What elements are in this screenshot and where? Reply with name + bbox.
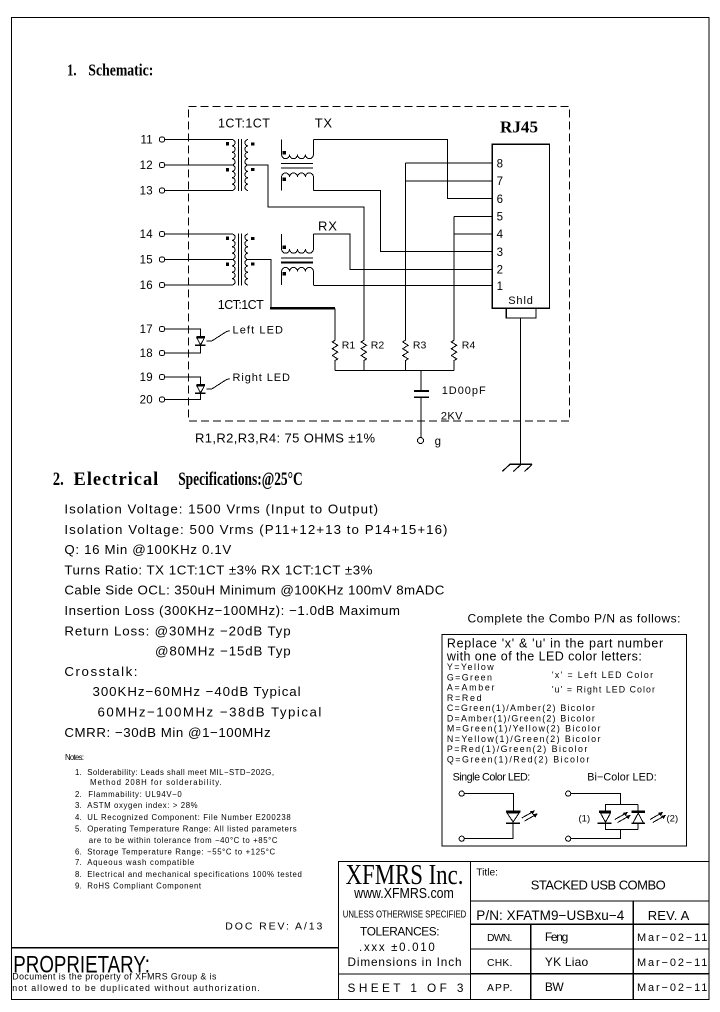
svg-text:R=Red: R=Red <box>447 693 482 703</box>
svg-text:2KV: 2KV <box>441 411 463 423</box>
svg-text:5: 5 <box>497 212 503 224</box>
svg-text:TOLERANCES:: TOLERANCES: <box>360 925 440 939</box>
svg-text:Q: 16 Min @100KHz 0.1V: Q: 16 Min @100KHz 0.1V <box>64 542 231 557</box>
svg-text:ASTM oxygen index: > 28%: ASTM oxygen index: > 28% <box>87 801 197 810</box>
svg-text:Mar−02−11: Mar−02−11 <box>637 982 707 994</box>
svg-text:1.: 1. <box>75 768 82 777</box>
svg-text:.xxx ±0.010: .xxx ±0.010 <box>359 942 435 954</box>
svg-text:2.: 2. <box>53 470 64 490</box>
svg-text:TX: TX <box>315 115 333 130</box>
svg-text:N=Yellow(1)/Green(2) Bicolor: N=Yellow(1)/Green(2) Bicolor <box>447 734 601 744</box>
svg-text:Return Loss: @30MHz −20dB: Return Loss: @30MHz −20dB Typ <box>64 623 290 638</box>
svg-text:Electrical: Electrical <box>74 470 159 490</box>
svg-text:are to be within tolerance: are to be within tolerance from −40°C to… <box>89 836 278 845</box>
svg-text:3.: 3. <box>75 801 82 810</box>
svg-text:Electrical and mechanical s: Electrical and mechanical specifications… <box>87 870 302 879</box>
svg-text:1: 1 <box>497 281 503 293</box>
svg-text:Bi−Color LED:: Bi−Color LED: <box>587 772 656 784</box>
svg-text:8.: 8. <box>75 870 82 879</box>
svg-text:Single Color LED:: Single Color LED: <box>453 772 531 784</box>
svg-text:Insertion Loss (300KHz−100MH: Insertion Loss (300KHz−100MHz): −1.0dB M… <box>64 603 400 618</box>
svg-text:A=Amber: A=Amber <box>447 683 495 693</box>
svg-text:R2: R2 <box>371 340 385 352</box>
svg-text:not allowed to be duplicat: not allowed to be duplicated without aut… <box>12 983 259 993</box>
svg-text:Crosstalk:: Crosstalk: <box>64 664 137 679</box>
svg-text:Operating Temperature Range:: Operating Temperature Range: All listed … <box>87 825 296 834</box>
svg-text:9.: 9. <box>75 882 82 891</box>
svg-text:APP.: APP. <box>487 983 512 994</box>
svg-text:R1: R1 <box>342 340 356 352</box>
svg-text:Solderability: Leads shall: Solderability: Leads shall meet MIL−STD−… <box>87 768 274 777</box>
svg-text:7.: 7. <box>75 858 82 867</box>
svg-text:20: 20 <box>140 395 153 407</box>
svg-text:6: 6 <box>497 194 503 206</box>
svg-text:@80MHz −15dB Typ: @80MHz −15dB Typ <box>155 644 291 659</box>
svg-text:Cable Side OCL: 350uH Mini: Cable Side OCL: 350uH Minimum @100KHz 10… <box>64 583 444 598</box>
svg-text:g: g <box>435 436 441 448</box>
svg-text:'x' = Left LED Color: 'x' = Left LED Color <box>552 670 653 680</box>
svg-text:Mar−02−11: Mar−02−11 <box>637 957 707 969</box>
svg-text:Shld: Shld <box>508 295 533 307</box>
svg-text:Aqueous wash compatible: Aqueous wash compatible <box>87 858 194 867</box>
svg-text:14: 14 <box>140 229 154 241</box>
svg-text:YK Liao: YK Liao <box>545 955 589 969</box>
svg-text:(1): (1) <box>579 814 591 825</box>
svg-text:6.: 6. <box>75 847 82 856</box>
svg-text:12: 12 <box>140 160 153 172</box>
svg-text:1CT:1CT: 1CT:1CT <box>218 298 264 312</box>
svg-text:1D00pF: 1D00pF <box>442 385 486 397</box>
svg-text:STACKED USB COMBO: STACKED USB COMBO <box>531 877 666 892</box>
svg-text:R1,R2,R3,R4: 75 OHMS ±1%: R1,R2,R3,R4: 75 OHMS ±1% <box>195 430 375 445</box>
svg-text:P/N: XFATM9−USBxu−4: P/N: XFATM9−USBxu−4 <box>476 908 624 923</box>
svg-text:'u' = Right LED Color: 'u' = Right LED Color <box>552 685 655 695</box>
svg-text:Complete the Combo P/N as: Complete the Combo P/N as follows: <box>468 611 681 625</box>
svg-text:R3: R3 <box>413 340 427 352</box>
svg-text:Feng: Feng <box>545 930 568 944</box>
svg-text:DWN.: DWN. <box>487 933 512 944</box>
svg-text:3: 3 <box>497 247 503 259</box>
svg-text:SHEET 1 OF 3: SHEET 1 OF 3 <box>348 981 464 995</box>
svg-text:Isolation Voltage: 500 Vr: Isolation Voltage: 500 Vrms (P11+12+13 t… <box>64 522 447 537</box>
svg-text:UL Recognized Component: Fi: UL Recognized Component: File Number E20… <box>87 813 291 822</box>
svg-text:19: 19 <box>140 372 153 384</box>
svg-text:RJ45: RJ45 <box>500 118 538 137</box>
svg-text:Schematic:: Schematic: <box>88 61 153 80</box>
svg-text:www.XFMRS.com: www.XFMRS.com <box>353 885 454 902</box>
svg-text:Turns Ratio: TX 1CT:1CT ±3: Turns Ratio: TX 1CT:1CT ±3% RX 1CT:1CT ±… <box>64 562 372 577</box>
svg-text:11: 11 <box>140 135 153 147</box>
svg-text:8: 8 <box>497 158 503 170</box>
svg-text:1.: 1. <box>67 61 76 80</box>
svg-text:4.: 4. <box>75 813 82 822</box>
svg-text:Specifications:@25°C: Specifications:@25°C <box>178 470 303 490</box>
svg-text:Notes:: Notes: <box>65 753 84 762</box>
svg-text:17: 17 <box>140 324 153 336</box>
svg-text:G=Green: G=Green <box>447 672 492 682</box>
svg-text:Title:: Title: <box>476 867 498 879</box>
svg-text:15: 15 <box>140 255 153 267</box>
svg-text:Q=Green(1)/Red(2) Bicolor: Q=Green(1)/Red(2) Bicolor <box>447 754 589 764</box>
svg-text:BW: BW <box>545 980 564 994</box>
svg-text:(2): (2) <box>667 814 679 825</box>
svg-text:Document is the property o: Document is the property of XFMRS Group … <box>12 972 217 982</box>
svg-text:RX: RX <box>318 219 338 234</box>
svg-text:2: 2 <box>497 265 503 277</box>
svg-text:300KHz−60MHz −40dB Typic: 300KHz−60MHz −40dB Typical <box>93 684 301 699</box>
svg-text:4: 4 <box>497 229 504 241</box>
svg-text:13: 13 <box>140 186 153 198</box>
svg-text:Mar−02−11: Mar−02−11 <box>637 932 707 944</box>
svg-text:UNLESS OTHERWISE SPECIFIED: UNLESS OTHERWISE SPECIFIED <box>343 908 467 920</box>
svg-text:CHK.: CHK. <box>487 958 512 969</box>
svg-text:Flammability: UL94V−0: Flammability: UL94V−0 <box>88 790 182 799</box>
svg-text:1CT:1CT: 1CT:1CT <box>218 116 270 130</box>
svg-text:Right LED: Right LED <box>233 372 291 384</box>
svg-text:60MHz−100MHz −38dB Typic: 60MHz−100MHz −38dB Typical <box>98 705 322 720</box>
svg-text:RoHS Compliant Component: RoHS Compliant Component <box>87 882 202 891</box>
svg-text:R4: R4 <box>462 340 476 352</box>
svg-text:Method 208H for solderabili: Method 208H for solderability. <box>90 778 222 787</box>
svg-text:7: 7 <box>497 176 503 188</box>
svg-text:DOC REV: A/13: DOC REV: A/13 <box>225 921 322 933</box>
svg-text:P=Red(1)/Green(2) Bicolor: P=Red(1)/Green(2) Bicolor <box>447 744 588 754</box>
svg-text:16: 16 <box>140 280 153 292</box>
svg-text:CMRR: −30dB Min @1−100MHz: CMRR: −30dB Min @1−100MHz <box>64 725 270 740</box>
svg-text:5.: 5. <box>75 825 82 834</box>
svg-text:REV. A: REV. A <box>648 908 690 923</box>
svg-text:Storage Temperature Range:: Storage Temperature Range: −55°C to +125… <box>87 847 275 856</box>
svg-text:C=Green(1)/Amber(2) Bicolor: C=Green(1)/Amber(2) Bicolor <box>447 703 595 713</box>
svg-text:M=Green(1)/Yellow(2) Bicolor: M=Green(1)/Yellow(2) Bicolor <box>447 724 601 734</box>
svg-text:D=Amber(1)/Green(2) Bicolor: D=Amber(1)/Green(2) Bicolor <box>447 713 595 723</box>
svg-text:Y=Yellow: Y=Yellow <box>447 662 494 672</box>
svg-text:Isolation Voltage: 1500 V: Isolation Voltage: 1500 Vrms (Input to O… <box>64 502 378 517</box>
svg-text:Dimensions in Inch: Dimensions in Inch <box>348 955 462 969</box>
svg-text:Left LED: Left LED <box>233 324 284 336</box>
svg-text:18: 18 <box>140 348 153 360</box>
svg-text:2.: 2. <box>75 790 82 799</box>
svg-text:Replace 'x' & 'u' in the: Replace 'x' & 'u' in the part number <box>447 637 663 651</box>
